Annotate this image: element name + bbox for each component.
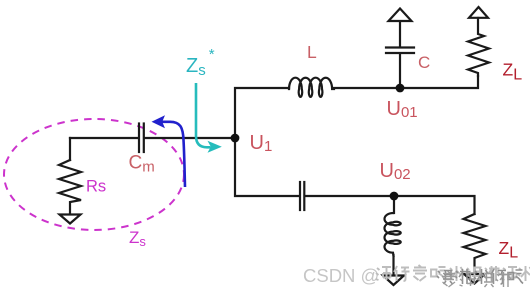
svg-text:C: C: [418, 53, 430, 72]
svg-text:L: L: [307, 42, 317, 62]
svg-text:CSDN @: CSDN @: [303, 265, 379, 286]
svg-text:Rs: Rs: [86, 178, 106, 196]
